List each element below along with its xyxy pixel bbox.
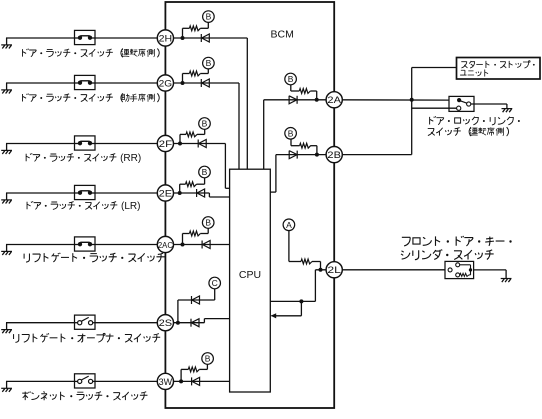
svg-text:B: B xyxy=(206,12,212,22)
svg-text:B: B xyxy=(205,354,211,364)
svg-text:(LR): (LR) xyxy=(121,201,140,212)
svg-text:2B: 2B xyxy=(327,150,341,161)
svg-text:CPU: CPU xyxy=(239,269,261,281)
svg-text:2S: 2S xyxy=(159,318,173,329)
svg-text:2G: 2G xyxy=(159,78,173,89)
svg-text:(RR): (RR) xyxy=(120,153,141,164)
svg-text:3W: 3W xyxy=(159,377,173,388)
svg-text:B: B xyxy=(202,119,208,129)
svg-text:2H: 2H xyxy=(159,33,173,44)
svg-text:2F: 2F xyxy=(159,139,173,150)
svg-text:B: B xyxy=(288,128,294,138)
svg-text:2AC: 2AC xyxy=(158,241,173,250)
svg-text:B: B xyxy=(205,218,211,228)
svg-text:C: C xyxy=(212,278,218,288)
svg-text:2A: 2A xyxy=(327,95,341,106)
svg-text:B: B xyxy=(206,58,212,68)
svg-text:B: B xyxy=(202,167,208,177)
svg-text:BCM: BCM xyxy=(271,29,294,41)
svg-text:A: A xyxy=(286,220,292,230)
svg-text:2L: 2L xyxy=(327,265,341,276)
svg-text:2E: 2E xyxy=(159,188,173,199)
svg-text:B: B xyxy=(288,74,294,84)
